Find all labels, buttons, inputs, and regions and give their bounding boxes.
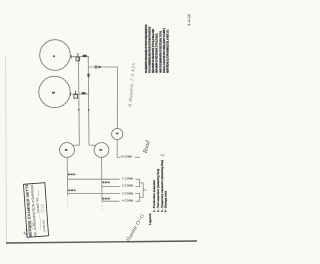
- svg-text:A Humble 7.5 #25: A Humble 7.5 #25: [127, 62, 136, 108]
- svg-text:4-4-66: 4-4-66: [187, 13, 192, 26]
- svg-text:1.: 1.: [160, 152, 167, 157]
- svg-text:Humble O+G: Humble O+G: [125, 213, 146, 244]
- svg-text:Road: Road: [142, 139, 152, 155]
